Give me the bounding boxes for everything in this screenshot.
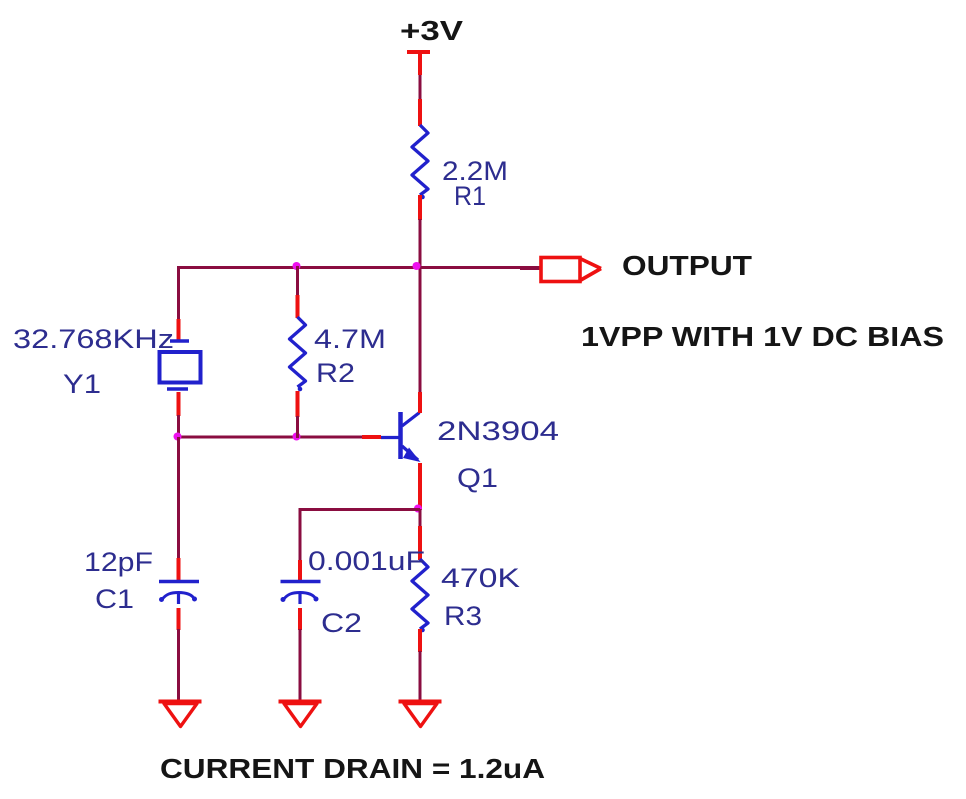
transistor Q1 [381, 412, 421, 462]
svg-text:Y1: Y1 [63, 369, 101, 399]
junction dot base net left [174, 433, 182, 441]
svg-text:2N3904: 2N3904 [437, 416, 559, 446]
resistor R1 [412, 125, 428, 199]
crystal Y1 [160, 341, 201, 389]
svg-text:470K: 470K [441, 563, 520, 593]
ground symbol left [159, 702, 202, 727]
resistor R2 [290, 317, 306, 391]
pin Y1.2 [177, 392, 181, 416]
pin C1.1 [177, 558, 181, 580]
pin Q1.base [362, 435, 381, 439]
pin C1.2 [177, 608, 181, 630]
wire node OUT to collector [419, 267, 422, 393]
wire R2 top [296, 266, 299, 296]
svg-text:R1: R1 [454, 181, 486, 211]
svg-text:4.7M: 4.7M [314, 324, 386, 354]
pin R3.1 [418, 526, 422, 560]
pin Q1.collector [418, 392, 422, 413]
pin R2.2 [296, 391, 300, 417]
wire C1 top [177, 437, 180, 559]
svg-text:R2: R2 [316, 358, 355, 388]
wire to output port [520, 267, 541, 270]
pin Y1.1 [177, 319, 181, 341]
svg-text:+3V: +3V [400, 15, 463, 46]
junction dot at R1 bottom [413, 262, 421, 270]
junction dot emitter node [414, 505, 422, 513]
svg-text:C2: C2 [321, 608, 362, 638]
wire OUT net down to crystal [177, 266, 180, 320]
pin R1.1 [418, 99, 422, 126]
wire main horizontal OUT net [178, 266, 540, 269]
wire power to R1 [419, 75, 422, 100]
wire R3 to ground [419, 651, 422, 701]
svg-text:CURRENT DRAIN = 1.2uA: CURRENT DRAIN = 1.2uA [160, 753, 545, 784]
svg-text:0.001uF: 0.001uF [308, 546, 425, 576]
wire emitter node horizontal to C2 [300, 508, 420, 511]
power symbol +3V [407, 52, 430, 75]
svg-text:OUTPUT: OUTPUT [622, 250, 752, 281]
wire base net horizontal [179, 436, 364, 439]
wire R2 bottom to base net [296, 416, 299, 438]
svg-text:R3: R3 [444, 601, 482, 631]
wire C2 vertical [299, 508, 302, 561]
wire C2 to ground [299, 629, 302, 701]
junction dot at R2 top [293, 262, 301, 270]
ground symbol middle [279, 702, 322, 727]
svg-text:1VPP WITH 1V DC BIAS: 1VPP WITH 1V DC BIAS [581, 321, 944, 352]
wire C1 to ground [177, 629, 180, 701]
wire crystal to base net [177, 415, 180, 438]
svg-text:12pF: 12pF [84, 547, 153, 577]
wire R1 to node OUT [419, 219, 422, 268]
pin C2.2 [298, 608, 302, 630]
svg-text:C1: C1 [95, 584, 134, 614]
resistor R3 [412, 559, 428, 632]
pin R2.1 [296, 295, 300, 318]
svg-text:32.768KHz: 32.768KHz [13, 324, 174, 354]
pin Q1.emitter [418, 463, 422, 510]
junction dot base net middle [293, 433, 301, 441]
svg-text:Q1: Q1 [457, 463, 498, 493]
capacitor C2 [281, 582, 321, 605]
output port symbol [541, 258, 601, 282]
capacitor C1 [159, 582, 199, 605]
ground symbol right [399, 702, 442, 727]
pin R3.2 [418, 629, 422, 652]
pin C2.1 [298, 560, 302, 580]
wire emitter node to R3 [419, 509, 422, 527]
pin R1.2 [418, 195, 422, 220]
